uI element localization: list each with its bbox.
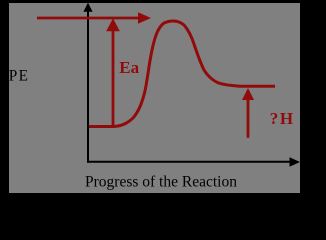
Ea activation-energy arrow <box>106 18 120 125</box>
svg-text:PE: PE <box>9 68 30 85</box>
reaction energy curve <box>89 21 275 127</box>
x-axis (Progress axis) <box>87 157 300 166</box>
gray plot panel <box>9 3 300 193</box>
svg-text:?H: ?H <box>270 109 295 128</box>
top horizontal red arrow <box>37 12 151 23</box>
y-axis (PE axis) <box>83 3 92 163</box>
svg-text:Ea: Ea <box>119 58 139 77</box>
svg-text:Progress of the Reaction: Progress of the Reaction <box>85 173 237 190</box>
delta-H arrow <box>242 88 254 138</box>
